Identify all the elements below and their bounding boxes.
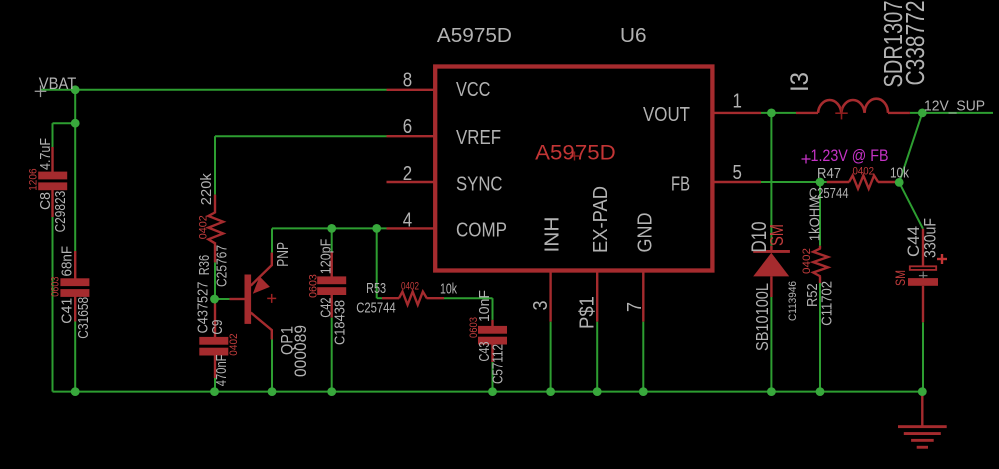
inductor I3 leads [796, 112, 818, 114]
svg-text:8: 8 [403, 70, 412, 92]
svg-text:C41: C41 [59, 298, 76, 324]
svg-text:330uF: 330uF [921, 218, 940, 258]
junction FB R52 [816, 178, 825, 187]
svg-text:7: 7 [624, 302, 646, 312]
svg-text:C25744: C25744 [356, 300, 396, 317]
resistor R53 10k zigzag [399, 292, 427, 305]
svg-text:C113946: C113946 [787, 281, 799, 321]
wire COMP down to QP1 emitter [271, 228, 273, 252]
svg-text:R53: R53 [366, 280, 386, 297]
svg-text:0603: 0603 [308, 274, 320, 298]
svg-text:P$1: P$1 [577, 296, 599, 329]
junction R47 C44 diagonal [895, 178, 904, 187]
pin 5 FB [713, 181, 762, 183]
junction rail R52 [816, 387, 825, 396]
transistor QP1 base lead [230, 298, 245, 300]
wire ground rail [53, 391, 923, 393]
capacitor C41 68nF plates [60, 278, 89, 286]
svg-text:VOUT: VOUT [643, 104, 690, 126]
svg-text:U6: U6 [620, 25, 647, 47]
svg-text:VBAT: VBAT [39, 75, 77, 93]
svg-text:0402: 0402 [853, 166, 875, 178]
svg-text:1kOHM: 1kOHM [807, 197, 824, 241]
svg-text:0402: 0402 [801, 248, 813, 274]
capacitor C44 plus sign [937, 258, 947, 260]
wire diagonal 12V_SUP to R47 [899, 113, 922, 182]
capacitor C43 10nF plates [478, 326, 507, 334]
junction rail C9 [210, 387, 219, 396]
svg-text:C29823: C29823 [52, 191, 69, 233]
capacitor C8 4.7uF plates [38, 172, 67, 180]
wire to R53 [377, 297, 382, 299]
svg-text:000089: 000089 [291, 325, 310, 377]
wire down to C8 [52, 123, 54, 147]
junction rail EX-PAD [593, 387, 602, 396]
wire INH pin 3 to ground rail [550, 322, 552, 392]
capacitor C42 top lead [331, 253, 333, 278]
svg-text:INH: INH [542, 217, 564, 253]
wire R53 to C43 [444, 297, 493, 299]
svg-text:C9: C9 [209, 320, 226, 335]
svg-text:12V_SUP: 12V_SUP [924, 99, 985, 115]
wire C41 to ground rail [74, 322, 76, 392]
node FB voltage probe cross [802, 158, 811, 160]
svg-text:C11702: C11702 [819, 281, 836, 326]
svg-text:2: 2 [403, 163, 412, 185]
capacitor C44 top lead [922, 229, 924, 266]
wire node to QP1 base [215, 298, 230, 300]
svg-text:C31658: C31658 [75, 297, 92, 339]
junction rail C43 [488, 387, 497, 396]
wire branch to C8 [53, 122, 76, 124]
svg-text:EX-PAD: EX-PAD [590, 186, 612, 253]
wire R52 to ground rail [819, 283, 821, 392]
svg-text:R36: R36 [196, 255, 213, 275]
inductor I3 coil [818, 99, 888, 113]
wire QP1 collector to ground rail [271, 339, 273, 391]
svg-text:C25767: C25767 [214, 245, 231, 287]
svg-text:1: 1 [733, 91, 742, 113]
capacitor C44 origin cross [919, 275, 928, 277]
resistor R47 right lead [878, 181, 897, 183]
capacitor C8 top lead [51, 147, 53, 172]
wire VOUT to inductor [761, 112, 796, 114]
svg-text:0402: 0402 [228, 333, 240, 355]
resistor R52 bottom lead [819, 276, 821, 283]
wire COMP down to C42 [331, 228, 333, 252]
diode D10 top lead [770, 246, 772, 251]
wire VREF horizontal [215, 135, 387, 137]
svg-text:C18438: C18438 [332, 300, 349, 345]
svg-text:6: 6 [403, 116, 412, 138]
wire COMP horizontal [272, 227, 387, 229]
junction rail pin3 [546, 387, 555, 396]
inductor I3 origin cross [835, 112, 847, 114]
svg-text:5: 5 [733, 162, 742, 184]
junction rail pin7 [639, 387, 648, 396]
transistor QP1 base bar [245, 275, 252, 324]
wire C44 to ground rail [922, 322, 924, 391]
junction VBAT [71, 85, 80, 94]
transistor QP1 collector [251, 313, 272, 340]
svg-text:VREF: VREF [456, 127, 501, 149]
wire node down to C9 [214, 299, 216, 304]
svg-text:4.7uF: 4.7uF [37, 138, 54, 170]
svg-text:R47: R47 [817, 165, 841, 182]
resistor R52 1kOHM zigzag [813, 248, 828, 276]
svg-text:COMP: COMP [456, 220, 507, 242]
resistor R53 right lead [427, 297, 445, 299]
svg-text:SYNC: SYNC [456, 174, 503, 196]
ground symbol bars [898, 425, 947, 428]
pin 2 SYNC [387, 181, 436, 183]
junction rail ground [918, 387, 927, 396]
wire down to C43 [492, 298, 494, 320]
ground symbol stem [921, 395, 923, 427]
transistor QP1 origin cross [267, 297, 276, 299]
svg-text:10k: 10k [890, 165, 909, 182]
resistor R36 bottom lead [214, 243, 216, 262]
node VBAT origin cross [35, 90, 47, 92]
wire D10 to ground rail [770, 297, 772, 392]
wire diagonal R47 to C44 [899, 182, 923, 228]
resistor R36 top lead [214, 195, 216, 213]
wire COMP down to R53 [376, 228, 378, 298]
wire VBAT net horizontal to pin 8 [40, 89, 387, 91]
pin P$1 EX-PAD [596, 271, 598, 322]
resistor R47 10k zigzag [849, 176, 878, 189]
svg-text:3: 3 [530, 301, 552, 311]
svg-text:10k: 10k [440, 281, 457, 298]
wire C8 to ground rail [52, 190, 54, 391]
svg-text:0603: 0603 [50, 277, 62, 297]
svg-text:C57112: C57112 [490, 344, 507, 384]
junction rail C42 [327, 387, 336, 396]
svg-text:120pF: 120pF [318, 239, 335, 275]
junction rail D10 [767, 387, 776, 396]
svg-text:SM: SM [893, 270, 908, 286]
junction R36 C9 QP1 base node [210, 295, 219, 304]
diode D10 SB10100L triangle [753, 253, 789, 277]
op-amp U6 A5975D regulator body [435, 67, 712, 271]
svg-text:220k: 220k [198, 173, 215, 205]
svg-text:0402: 0402 [401, 281, 419, 293]
pin 3 INH [549, 271, 551, 322]
svg-text:0603: 0603 [468, 317, 480, 338]
svg-text:68nF: 68nF [59, 246, 76, 277]
capacitor C44 negative plate [908, 278, 938, 286]
junction COMP R53 [372, 224, 381, 233]
diode D10 bottom lead [770, 276, 772, 297]
junction C8 branch [71, 119, 80, 128]
wire VOUT node down to D10 [770, 113, 772, 246]
svg-text:4: 4 [403, 209, 412, 231]
resistor R47 left lead [827, 181, 849, 183]
wire EX-PAD to ground rail [596, 322, 598, 392]
junction rail QP1 [268, 387, 277, 396]
svg-text:A5975D: A5975D [437, 25, 512, 47]
capacitor C42 120pF plates [317, 276, 346, 284]
capacitor C43 bottom lead [491, 344, 493, 362]
resistor R53 left lead [382, 297, 399, 299]
svg-text:A5975D: A5975D [535, 142, 616, 165]
svg-text:SM: SM [767, 224, 787, 246]
pin 1 VOUT [713, 112, 762, 114]
resistor R52 top lead [819, 246, 821, 249]
pin 6 VREF [387, 135, 436, 137]
transistor QP1 emitter arrow [253, 276, 270, 293]
capacitor C44 bottom lead [922, 286, 924, 322]
svg-text:1206: 1206 [28, 168, 40, 190]
svg-text:0402: 0402 [198, 215, 210, 239]
capacitor C9 470nF plates [199, 337, 228, 345]
capacitor C9 top lead [214, 304, 216, 338]
diode D10 cathode bar [753, 250, 790, 253]
svg-text:GND: GND [635, 213, 657, 253]
capacitor C41 bottom lead [74, 295, 76, 322]
wire R36 to node [214, 262, 216, 299]
svg-text:I3: I3 [786, 72, 814, 92]
pin 8 VCC [387, 89, 436, 91]
wire VBAT down to C41 [74, 90, 76, 251]
transistor QP1 emitter [251, 253, 272, 286]
svg-text:VCC: VCC [456, 79, 490, 101]
junction rail C41 [71, 387, 80, 396]
wire VREF down to R36 [214, 136, 216, 194]
wire FB horizontal [761, 181, 827, 183]
capacitor C8 bottom lead [51, 190, 53, 217]
svg-text:470nF: 470nF [213, 355, 230, 387]
capacitor C9 bottom lead [214, 355, 216, 378]
wire C9 to ground rail [214, 378, 216, 392]
pin 7 GND [642, 271, 644, 322]
wire GND pin 7 to ground rail [642, 322, 644, 392]
svg-text:1.23V @ FB: 1.23V @ FB [811, 146, 889, 165]
svg-text:SB10100L: SB10100L [752, 283, 772, 351]
IC origin cross [570, 155, 579, 157]
junction COMP C42 [327, 224, 336, 233]
wire C43 to ground rail [492, 362, 494, 392]
wire C42 to ground rail [331, 318, 333, 392]
capacitor C42 bottom lead [331, 295, 333, 318]
svg-text:C338772: C338772 [900, 1, 930, 86]
junction 12V_SUP [918, 109, 927, 118]
svg-text:PNP: PNP [275, 242, 292, 267]
junction VOUT D10 [767, 109, 776, 118]
capacitor C43 top lead [491, 320, 493, 326]
capacitor C44 330uF positive plate [910, 266, 936, 270]
resistor R36 220k zigzag [208, 212, 223, 244]
wire 12V_SUP net [910, 112, 993, 114]
wire FB down to R52 [819, 182, 821, 246]
svg-text:FB: FB [671, 174, 690, 196]
capacitor C41 top lead [74, 251, 76, 279]
pin 4 COMP [387, 227, 436, 229]
